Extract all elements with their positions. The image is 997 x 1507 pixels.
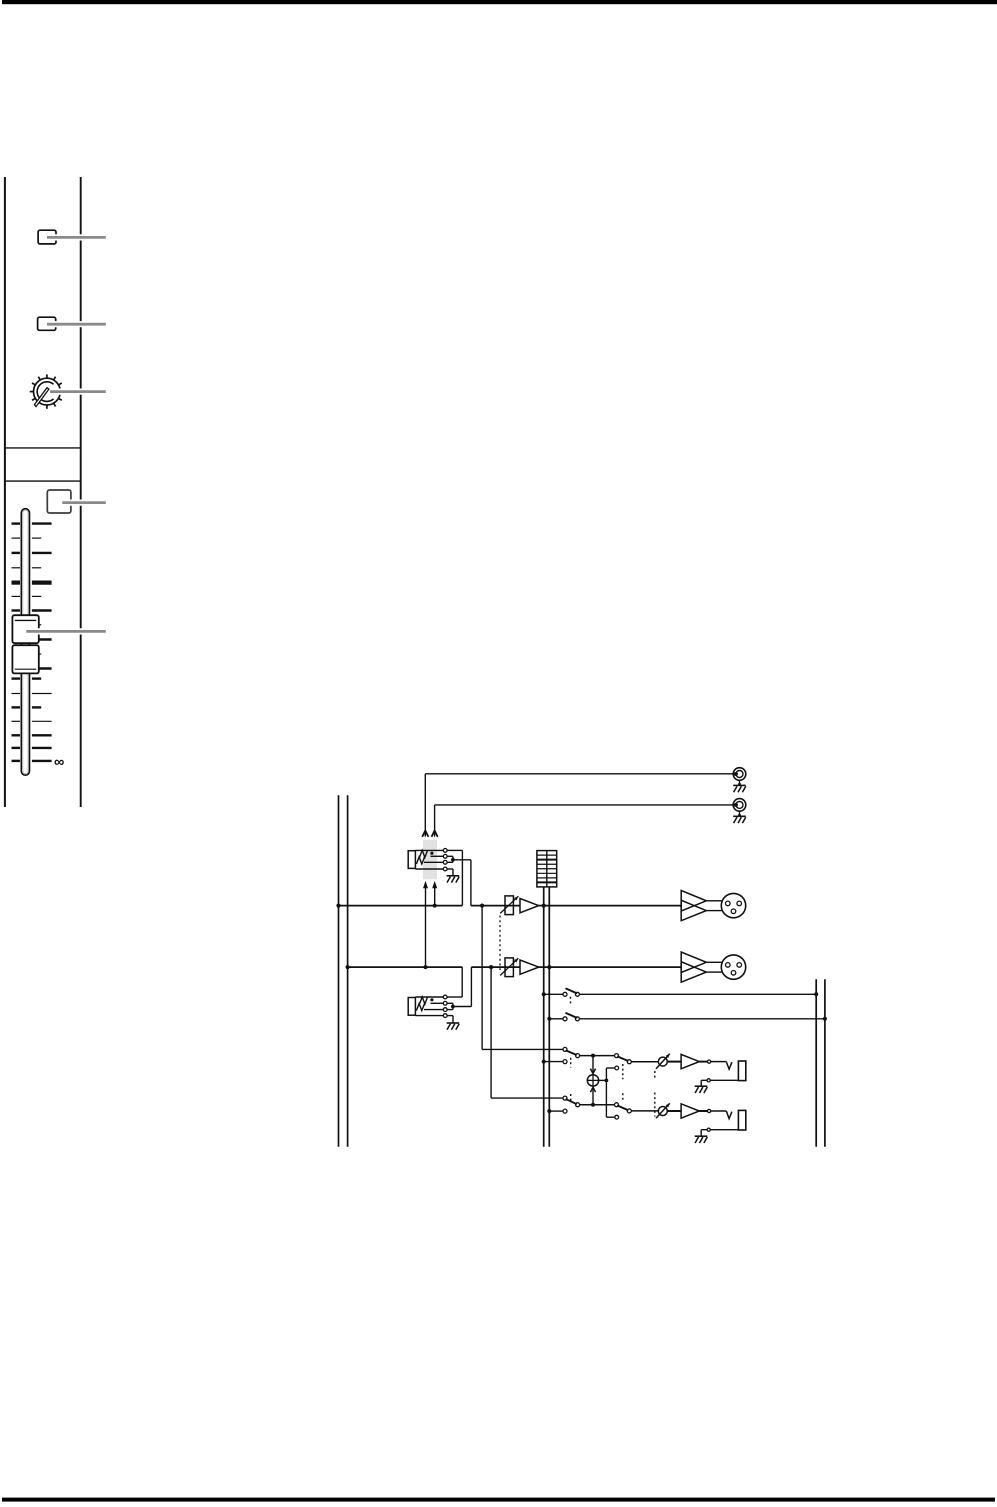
- bus line mid R: [548, 887, 550, 1147]
- contact circle J2 r3: [443, 1008, 447, 1012]
- contact circle J1 sleeve: [443, 867, 447, 871]
- feed arrow wire L: [425, 888, 427, 968]
- channel strip left border: [4, 177, 6, 807]
- insert jack J1 tip contact dot: [430, 852, 433, 855]
- junction dot J1 return: [451, 858, 455, 862]
- switch SW3 pole: [576, 1054, 580, 1058]
- bus line right L: [815, 979, 817, 1147]
- ground G2 (insert 2): [447, 1023, 460, 1030]
- wire J2 send loop: [447, 967, 462, 997]
- junction dot sum out: [605, 1079, 609, 1083]
- level meter M1: [537, 851, 557, 887]
- wire J2 return loop: [455, 967, 472, 1006]
- wire J3 sleeve down: [700, 1080, 702, 1085]
- switch SW4 contact B: [563, 1109, 567, 1113]
- button switch B1: [38, 230, 56, 244]
- rotary knob K1: [30, 374, 62, 408]
- strip section divider lower: [5, 480, 81, 482]
- wire J4 sleeve down: [700, 1130, 702, 1136]
- switch SW6 contact: [615, 1103, 619, 1107]
- wire J2 sleeve to ground: [447, 1016, 453, 1023]
- switch SW2 lever: [566, 1013, 576, 1018]
- wire ST IN R vertical: [434, 805, 436, 837]
- wire ST IN L horizontal: [425, 773, 733, 775]
- switch SW5 contact: [615, 1054, 619, 1058]
- ground G5 (phones L): [695, 1086, 708, 1093]
- insert jack J2 sleeve row wire: [415, 1015, 443, 1017]
- button switch B2: [38, 317, 56, 330]
- switch SW3 contact B: [563, 1060, 567, 1064]
- contact circle J2 tip: [443, 995, 447, 999]
- gang dashed link VR1-VR2: [499, 916, 501, 971]
- junction dot sum in L: [591, 1054, 595, 1058]
- bottom black bar: [2, 1498, 995, 1502]
- leader line K1: [50, 389, 106, 395]
- top black bar: [2, 0, 997, 4]
- junction dot W1 on left bus: [336, 904, 340, 908]
- stub bus L to SW3: [544, 1061, 563, 1063]
- contact circle J3 sleeve: [707, 1079, 710, 1082]
- switch SW4 contact A: [563, 1096, 567, 1100]
- junction dot REC R right: [823, 1017, 827, 1021]
- contact circle J4 sleeve: [707, 1128, 710, 1131]
- fader cap F1: [12, 615, 38, 673]
- phones jack J3: [726, 1061, 746, 1081]
- contact circle J2 sleeve: [443, 1014, 447, 1018]
- switch SW5 lever: [618, 1057, 628, 1061]
- phone jack ST IN R: [733, 799, 746, 823]
- sum node (mono mix): [587, 1075, 598, 1086]
- wire REC L: [544, 993, 817, 995]
- feed wire phones L: [482, 906, 563, 1050]
- switch SW6 pole: [627, 1109, 631, 1113]
- arrow into sum node (down): [590, 1056, 595, 1074]
- wire J1 sleeve to ground: [447, 869, 453, 875]
- junction dot W2 on mid bus: [547, 965, 551, 969]
- stereo fader VR2: [500, 958, 518, 977]
- highlight band (insert path): [423, 840, 437, 880]
- junction dot feed L on wire2: [424, 965, 428, 969]
- arrow chevron into insert (R): [432, 831, 438, 837]
- junction dot stub R: [547, 1109, 551, 1113]
- junction dot REC L right: [814, 992, 818, 996]
- junction dot W1 phones feed: [480, 904, 484, 908]
- wire W1 segment B: [471, 905, 681, 907]
- feed arrowhead R: [432, 881, 437, 888]
- level pot P1: [656, 1054, 670, 1069]
- pin circle A2: [708, 1109, 711, 1112]
- contact circle mono R: [615, 1115, 619, 1119]
- junction dot W2 phones feed: [489, 965, 493, 969]
- bus line mid L: [543, 887, 545, 1147]
- headphone amp A1: [681, 1054, 699, 1068]
- feed arrow wire R: [434, 888, 436, 906]
- wire J2 ring junction: [447, 1003, 453, 1009]
- switch SW2 contacts: [563, 1017, 579, 1021]
- wire J1 return loop vertical: [470, 860, 472, 906]
- switch SW1 lever: [566, 989, 576, 994]
- channel strip right border: [80, 177, 82, 807]
- insert jack J1 sleeve row wire: [415, 868, 443, 870]
- gang dashed SW3-SW4: [570, 1058, 572, 1104]
- insert jack J2 tip contact dot: [430, 998, 433, 1001]
- wire ST IN R horizontal: [435, 804, 734, 806]
- junction dot W2 on left bus: [346, 965, 350, 969]
- insert jack J1 tip row wire: [415, 849, 443, 851]
- wire J1 ring to junction: [447, 856, 453, 862]
- bus line right R: [824, 979, 826, 1147]
- wire ST IN L vertical: [424, 774, 426, 837]
- wire P2 to amp A2: [667, 1110, 681, 1112]
- level pot P2: [656, 1103, 670, 1118]
- switch SW3 contact A: [563, 1047, 567, 1051]
- wire J1 return to loop: [453, 859, 471, 861]
- junction dot feed R on wire1: [433, 904, 437, 908]
- wire to jack J4: [711, 1110, 727, 1112]
- bus line left R: [347, 795, 349, 1147]
- stereo fader VR1: [500, 896, 518, 915]
- junction dot REC L left: [542, 992, 546, 996]
- bus line left L: [338, 795, 340, 1147]
- junction dot stub L: [542, 1060, 546, 1064]
- wire mono bracket: [606, 1068, 614, 1117]
- switch SW6 lever: [618, 1106, 628, 1110]
- wire A2 out: [699, 1110, 707, 1112]
- insert jack J1 spring contact lower: [416, 857, 424, 864]
- contact circle J1 ring: [443, 854, 447, 858]
- leader line F1: [26, 628, 106, 634]
- svg-text:∞: ∞: [54, 754, 64, 770]
- gang dashed SW1-SW2: [570, 997, 572, 1004]
- balanced driver + XLR OUT L: [681, 891, 746, 921]
- wire sum out: [599, 1079, 607, 1081]
- insert jack J2 ring row wire: [431, 1002, 444, 1004]
- stub bus R to SW4: [549, 1110, 563, 1112]
- gang dashed P1-P2: [654, 1071, 656, 1117]
- wire W1 segment A: [339, 905, 463, 907]
- switch SW3 lever: [566, 1051, 576, 1055]
- insert jack J1 row3 wire: [424, 861, 443, 863]
- wire SW6 to pot P2: [631, 1110, 658, 1112]
- insert jack J1 ring row wire: [431, 855, 444, 857]
- gang dashed SW5-SW6: [622, 1064, 624, 1102]
- wire W2 segment B: [471, 966, 681, 968]
- insert jack J1 spring contact upper: [420, 850, 428, 857]
- balanced driver + XLR OUT R: [681, 952, 746, 982]
- fader track slot: [21, 509, 29, 776]
- wire SW4 pole to SW6: [580, 1104, 615, 1106]
- wire J4 sleeve: [701, 1129, 738, 1131]
- wire P1 to amp A1: [667, 1061, 681, 1063]
- arrow into sum node (up): [590, 1087, 595, 1104]
- insert jack J1 sleeve bracket: [408, 851, 415, 869]
- switch SW5 pole: [627, 1060, 631, 1064]
- wire to jack J3: [711, 1061, 727, 1063]
- junction dot W1 on mid bus: [542, 904, 546, 908]
- leader line B1: [47, 234, 106, 240]
- wire J3 sleeve: [701, 1079, 738, 1081]
- insert jack J2 tip row wire: [415, 996, 443, 998]
- phones jack J4: [726, 1110, 746, 1130]
- wire J1 send loop vertical: [447, 850, 462, 905]
- buffer amp U2: [520, 960, 539, 974]
- leader line B2: [47, 321, 106, 327]
- ground G6 (phones R): [695, 1136, 708, 1143]
- contact circle J1 tip: [443, 849, 447, 853]
- arrow chevron into insert (L): [422, 831, 428, 837]
- wire A1 out: [699, 1061, 707, 1063]
- insert jack J2 sleeve bracket: [408, 998, 415, 1016]
- junction dot REC R left: [547, 1017, 551, 1021]
- phone jack ST IN L: [733, 768, 746, 793]
- junction dot sum in R: [591, 1103, 595, 1107]
- insert jack J2 spring contact lower: [416, 1004, 424, 1011]
- contact circle mono L: [615, 1066, 619, 1070]
- buffer amp U1: [520, 899, 539, 913]
- feed arrowhead L: [423, 881, 428, 888]
- wire SW5 to pot P1: [631, 1061, 658, 1063]
- headphone amp A2: [681, 1104, 699, 1118]
- infinity scale label: [54, 754, 64, 770]
- button switch B3 (ON): [47, 490, 71, 513]
- junction dot J2 return: [451, 1005, 455, 1009]
- switch SW4 pole: [576, 1103, 580, 1107]
- fader scale tick marks: [12, 524, 52, 761]
- switch SW4 lever: [566, 1099, 576, 1104]
- wire REC R: [549, 1018, 825, 1020]
- contact circle J2 ring: [443, 1001, 447, 1005]
- pin circle A1: [708, 1060, 711, 1063]
- switch SW1 contacts: [563, 992, 579, 996]
- leader line B3: [62, 500, 106, 506]
- feed wire phones R: [491, 967, 563, 1098]
- insert jack J2 row3 wire: [424, 1009, 443, 1011]
- wire W2 segment A: [348, 966, 463, 968]
- ground G1 (insert 1): [447, 876, 460, 883]
- insert jack J2 spring contact upper: [420, 997, 428, 1004]
- strip section divider upper: [5, 447, 81, 449]
- wire SW3 pole to SW5: [580, 1055, 615, 1057]
- contact circle J1 r3: [443, 860, 447, 864]
